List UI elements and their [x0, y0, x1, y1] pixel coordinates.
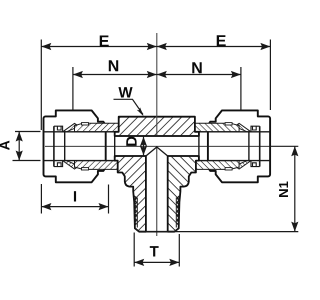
- thread root line left: [136, 198, 138, 228]
- front ferrule (bottom wedge): [235, 161, 251, 169]
- lower body mass (right of branch): [168, 156, 199, 232]
- center body flange (hatched): [115, 117, 199, 136]
- branch centerline: [156, 147, 158, 236]
- ext line N1 bottom: [175, 231, 298, 233]
- dim line I: [41, 206, 108, 208]
- thread root line right: [175, 198, 177, 228]
- ext line T right: [178, 234, 180, 267]
- bore bottom line right: [168, 155, 199, 157]
- label N right: [192, 62, 201, 73]
- label E left: [100, 35, 109, 46]
- ext line A top: [15, 131, 41, 133]
- tube hole top line: [44, 131, 115, 133]
- bore top line: [115, 135, 199, 137]
- arrow T right: [169, 259, 179, 266]
- arrow A up: [16, 132, 23, 142]
- arrow N-left at center: [147, 71, 157, 78]
- body tube shoulder: [198, 132, 200, 161]
- ext line I left: [40, 184, 42, 214]
- nut internal step (bottom): [54, 161, 63, 167]
- ext line E left: [40, 40, 42, 131]
- body thread band inside nut (bottom): [75, 161, 119, 170]
- ferrule seat notch (bottom): [225, 168, 232, 170]
- dim line E right: [157, 46, 271, 48]
- nut internal step (bottom): [251, 161, 260, 167]
- front ferrule (top wedge): [235, 123, 251, 131]
- lower body mass (left of branch): [115, 156, 146, 232]
- arrow N far-right: [231, 71, 241, 78]
- W leader: [114, 99, 144, 114]
- arrow N-right at center: [157, 71, 167, 78]
- label T: [150, 246, 159, 256]
- ferrule seat notch (top): [225, 123, 232, 125]
- ferrule seat notch (top): [82, 123, 89, 125]
- label I: [74, 191, 76, 201]
- dim line N1: [294, 146, 296, 231]
- nut internal step (top): [54, 126, 63, 132]
- stub bottom edge: [135, 228, 179, 231]
- ext line T left: [133, 233, 135, 267]
- right port = mirror of left: [168, 110, 270, 231]
- dim line D: [143, 137, 145, 156]
- stub thread zigzag left: [134, 196, 136, 225]
- label W: [118, 87, 132, 97]
- right compression nut outline: [208, 110, 270, 182]
- ext line I right: [108, 185, 110, 214]
- ext line N left: [72, 67, 74, 110]
- arrow E far-left: [41, 43, 51, 50]
- dim line A: [18, 132, 20, 161]
- dim line E left: [41, 46, 157, 48]
- run centerline: [45, 145, 270, 147]
- ext line N1 top: [270, 145, 298, 147]
- arrow E-right at center: [157, 43, 167, 50]
- dim line T: [134, 261, 179, 263]
- stub thread zigzag right: [177, 196, 179, 225]
- label E right: [217, 35, 226, 46]
- arrow A down: [16, 151, 23, 161]
- ext line E right: [269, 40, 271, 111]
- tube hole top line: [199, 131, 270, 133]
- body thread band inside nut (top): [195, 123, 239, 132]
- body thread band inside nut (top): [75, 123, 119, 132]
- arrow N1 up: [291, 146, 298, 156]
- front ferrule (bottom wedge): [63, 161, 79, 169]
- body tube shoulder: [114, 132, 116, 161]
- arrow I left: [41, 203, 51, 210]
- label N left: [109, 60, 118, 71]
- top center extension line: [156, 33, 158, 135]
- front ferrule (top wedge): [63, 123, 79, 131]
- ferrule seat notch (bottom): [82, 168, 89, 170]
- arrow E-left at center: [147, 43, 157, 50]
- arrow E far-right: [260, 43, 270, 50]
- arrow D down: [140, 146, 147, 155]
- nut inner edge line 2: [64, 132, 66, 161]
- arrow I right: [99, 203, 109, 210]
- bore bottom line left: [115, 155, 146, 157]
- ext line A bottom: [13, 160, 41, 162]
- nut body (left compression nut outline): [44, 110, 106, 182]
- arrow T left: [134, 259, 144, 266]
- arrow N1 down: [291, 222, 298, 232]
- nut internal shoulder line: [259, 126, 261, 166]
- branch drill cone: [146, 147, 168, 156]
- nut internal step (top): [251, 126, 260, 132]
- tube hole bottom line: [44, 160, 115, 162]
- label N1 (rotated): [279, 182, 288, 197]
- arrow N far-left: [73, 71, 83, 78]
- dim line N left: [73, 74, 157, 76]
- nut internal shoulder line: [53, 126, 55, 166]
- body thread band inside nut (bottom): [195, 161, 239, 170]
- arrow D up: [140, 137, 147, 146]
- arrow W leader: [137, 107, 144, 116]
- label A (rotated): [0, 141, 9, 150]
- nut inner edge line 2: [248, 132, 250, 161]
- dim line N right: [157, 74, 241, 76]
- label D (rotated): [126, 137, 136, 146]
- tube hole bottom line: [199, 160, 270, 162]
- ext line N right: [240, 67, 242, 110]
